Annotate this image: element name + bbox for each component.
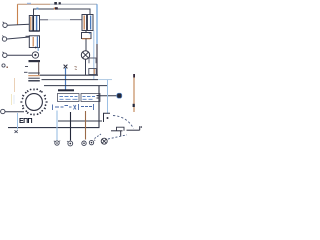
wire middle (y121) bbox=[58, 120, 102, 122]
wire T5 to dial bbox=[5, 111, 24, 113]
wire coil L1 to coil L2 bbox=[40, 19, 49, 21]
svg-text:ΕΠΠ: ΕΠΠ bbox=[19, 118, 33, 125]
terminal T1 bbox=[3, 22, 8, 28]
tick near coil lead bbox=[36, 8, 38, 10]
lamp DS1 (circle with X) bbox=[81, 51, 89, 59]
wire down to terminal T8 bbox=[85, 111, 87, 140]
node X (cross mark) bbox=[64, 65, 68, 69]
faint orange vertical near dial bbox=[14, 78, 16, 92]
resistor block H1 (hatched left end of bus) bbox=[24, 72, 40, 81]
label T4 bbox=[2, 64, 8, 68]
switch S1 pin up bbox=[139, 126, 141, 130]
bracket box right of lamp (lower, with orange bar) bbox=[89, 69, 96, 75]
terminal T5 bbox=[1, 109, 5, 113]
terminal T8b bbox=[89, 140, 95, 145]
terminal T3 bbox=[2, 52, 7, 58]
wire X down to T-bar bbox=[65, 68, 67, 90]
dash left of bar bbox=[25, 66, 28, 68]
wire top rail A left vertical (orange) bbox=[17, 4, 19, 24]
label on rail A bbox=[27, 3, 31, 4]
faint streaks left of dial bbox=[11, 94, 13, 105]
wire T1 to coil bbox=[7, 23, 29, 26]
switch S1 lever line bbox=[111, 130, 123, 132]
terminal T7 bbox=[67, 141, 73, 146]
wire vertical right (x99) bbox=[98, 86, 100, 128]
wire stub left of capacitor bbox=[26, 35, 31, 37]
wire bar down to bus bbox=[38, 62, 40, 75]
contact bar bbox=[29, 60, 41, 62]
wire rail B horizontal bbox=[34, 9, 91, 16]
T-bar contact bbox=[58, 89, 74, 91]
wire lamp to bus bbox=[85, 59, 87, 75]
switch S1 second segment bbox=[127, 129, 140, 131]
bus line bottom (y127.5) bbox=[8, 127, 100, 129]
wire down to terminal T7 bbox=[70, 112, 72, 141]
pivot P1 (circle with X) bbox=[101, 138, 107, 144]
contact screw M1 (circle with dot) bbox=[32, 52, 38, 58]
wire down to terminal T6 bbox=[56, 111, 58, 141]
coil L1 (primary winding) bbox=[29, 16, 39, 32]
bus line 2 (y79.5) bbox=[42, 79, 99, 81]
knob K1 bbox=[117, 93, 122, 98]
terminal T6 bbox=[54, 141, 60, 146]
capacitor box C1 bbox=[29, 36, 39, 51]
bus line 1 (y75) bbox=[40, 74, 98, 76]
label box B2 bbox=[81, 94, 100, 102]
terminal T2 bbox=[2, 36, 7, 42]
dashed arc (lever travel) bbox=[113, 116, 134, 129]
bus line 3 (y85.5) bbox=[44, 85, 108, 87]
small mark right of X bbox=[75, 67, 78, 70]
wire top rail A horizontal bbox=[18, 3, 51, 5]
wire T3 to contact bbox=[7, 54, 32, 56]
dashed pointer from pivot bbox=[108, 135, 127, 139]
node a (junction marks on rail A) bbox=[54, 2, 57, 5]
node b (junction on rail B) bbox=[55, 7, 58, 9]
wire coil L2 to lamp bbox=[85, 31, 87, 51]
coil L2 (secondary winding) bbox=[82, 15, 93, 31]
wire orange vertical (x134) bbox=[133, 74, 135, 112]
wire light blue down (x17.5) bbox=[17, 113, 19, 130]
box under coil L2 bbox=[82, 33, 92, 39]
wire T2 to capacitor box bbox=[7, 37, 30, 39]
switch S1 pin down bbox=[120, 131, 122, 137]
label row 2 bbox=[53, 104, 94, 110]
wire right rail vertical (outer) bbox=[96, 4, 98, 44]
bracket F bbox=[104, 113, 111, 122]
wire right rail vertical (inner, light) bbox=[93, 31, 95, 80]
label box B1 bbox=[58, 94, 80, 102]
switch S1 box on line bbox=[117, 127, 125, 131]
wire to knob bbox=[97, 95, 117, 97]
wire light blue vertical (x107.5) bbox=[107, 80, 109, 114]
bracket box right of lamp (upper) bbox=[89, 58, 96, 63]
small mark under bottom line bbox=[15, 130, 18, 133]
dashed diagonal left of pivot bbox=[95, 134, 102, 139]
rotary dial SW1 bbox=[20, 88, 47, 115]
terminal T8a bbox=[82, 141, 86, 145]
